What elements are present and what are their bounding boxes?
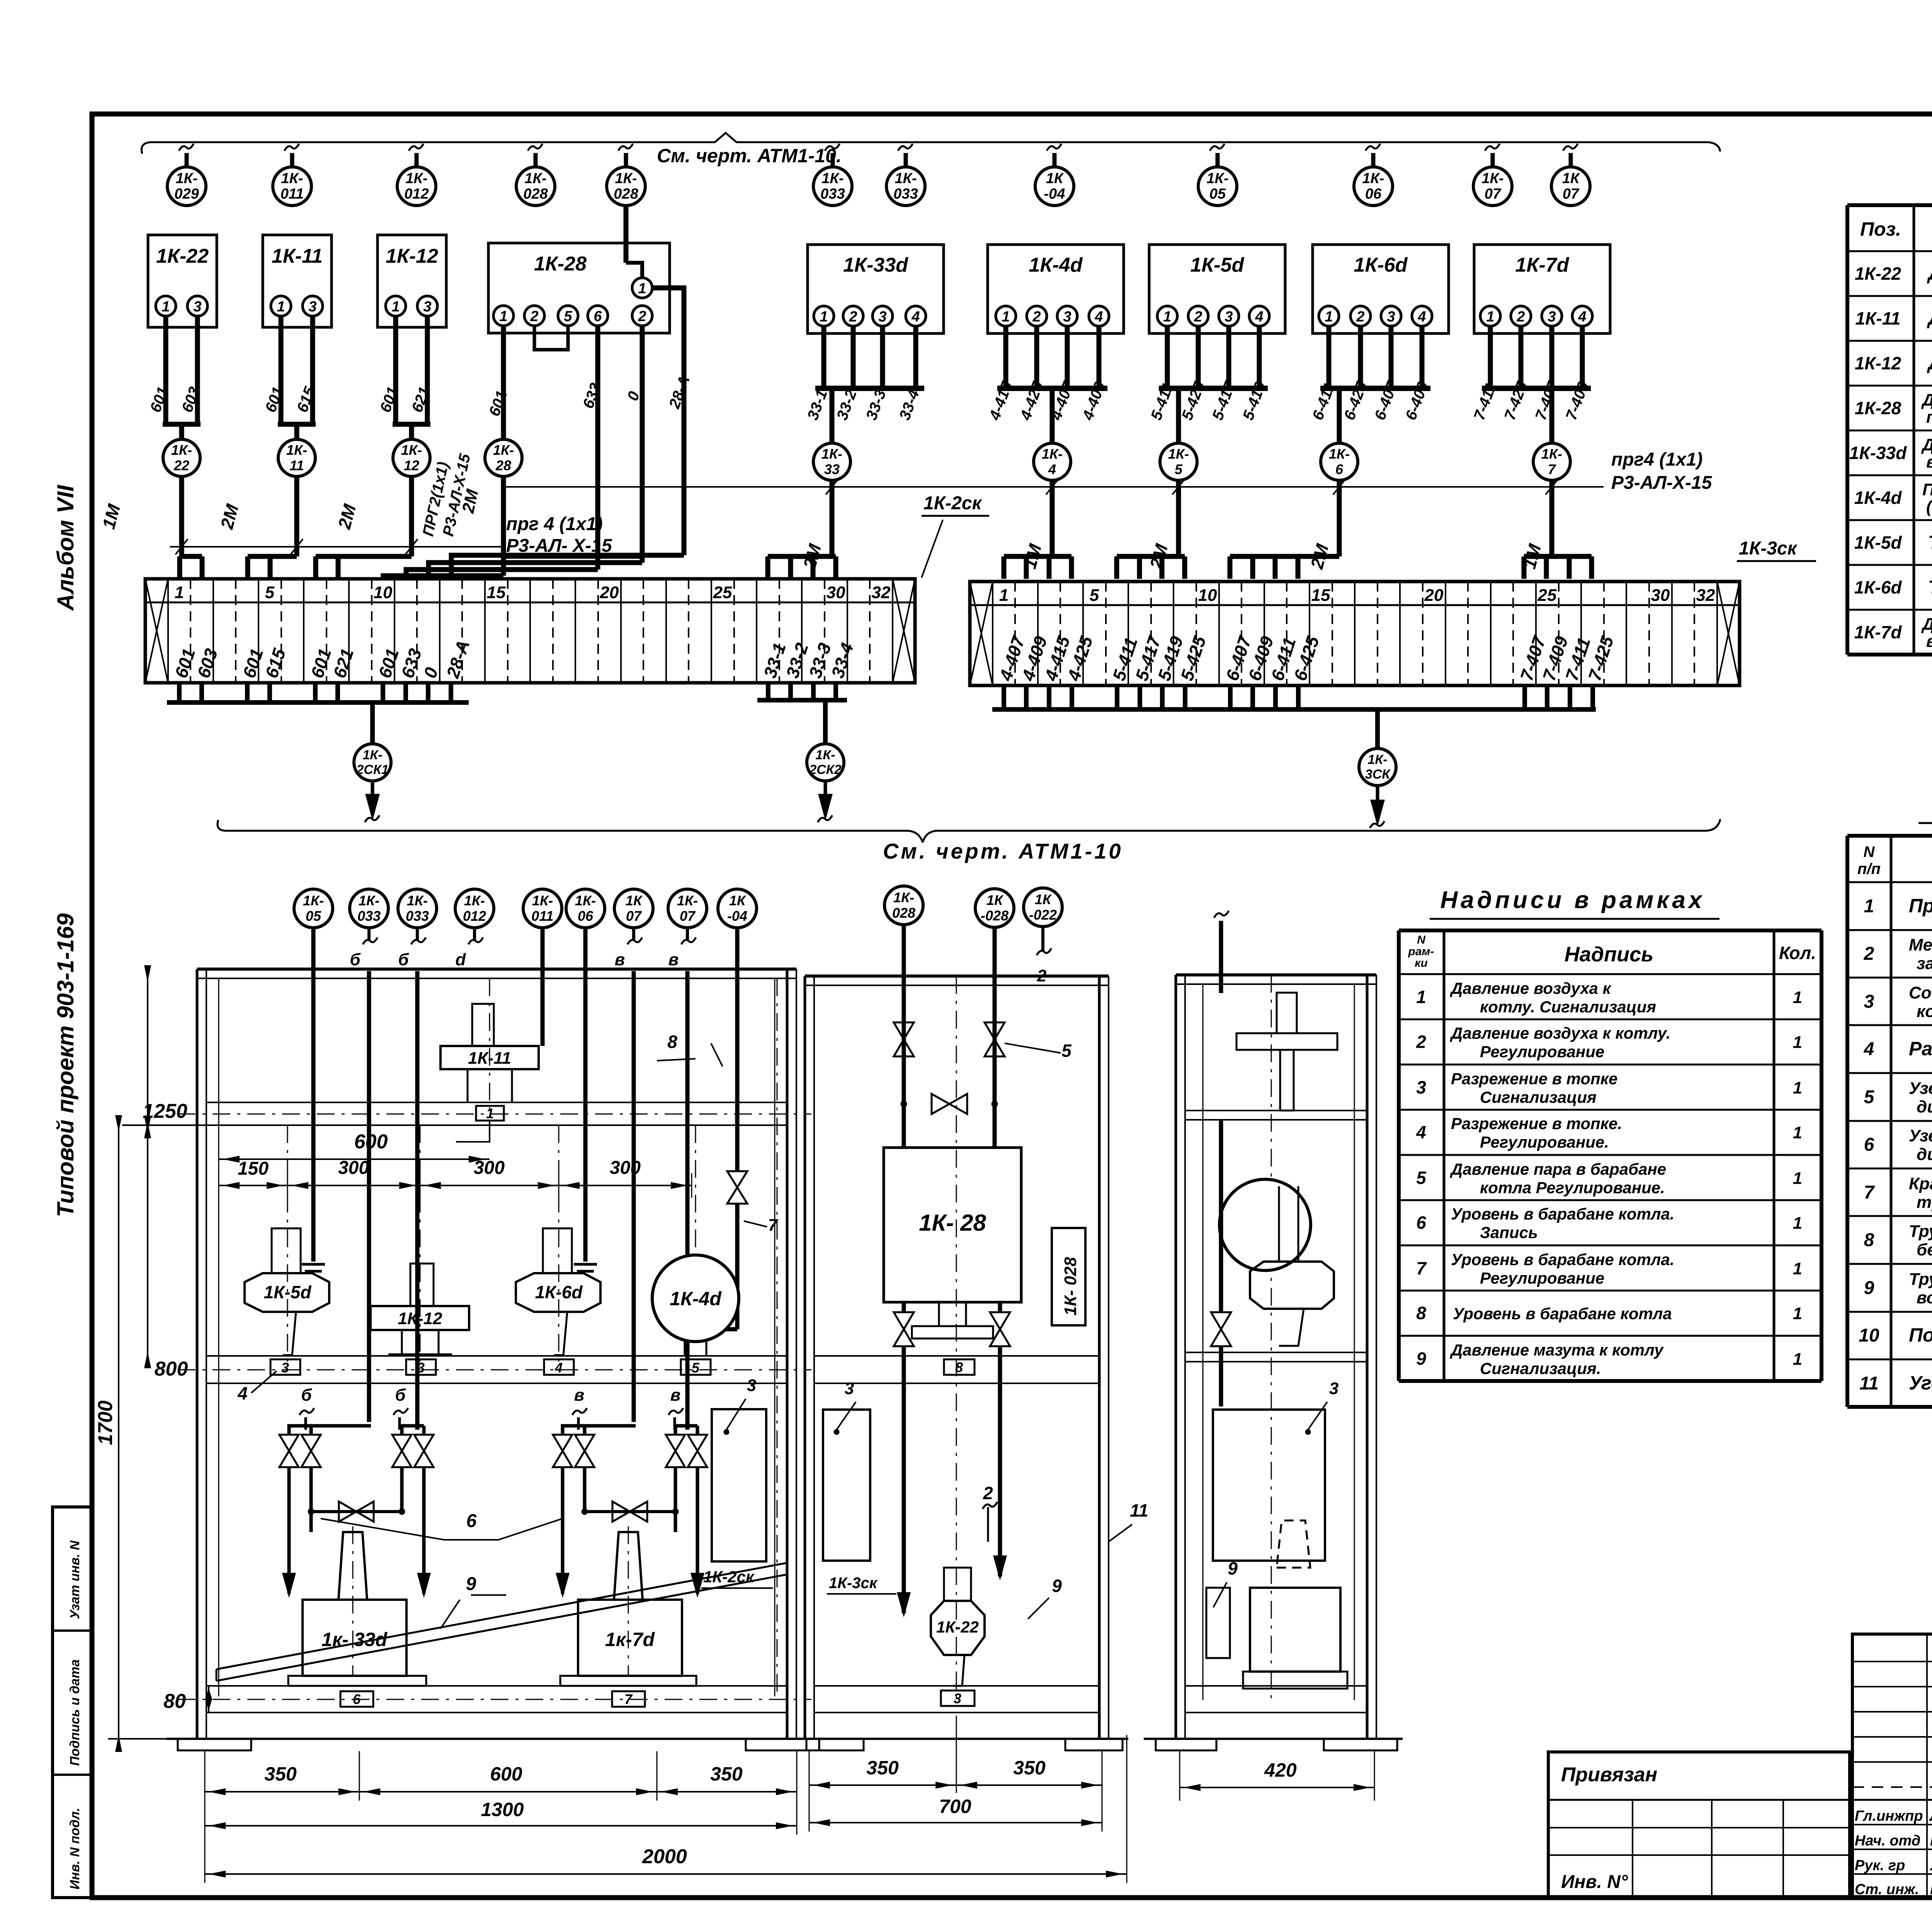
svg-text:Узел обвязки: Узел обвязки [1909,1126,1932,1145]
svg-text:4: 4 [1417,309,1426,325]
elevation A: 1К-11 device [440,1046,539,1069]
svg-text:6: 6 [1864,1134,1874,1155]
svg-text:3: 3 [1225,309,1233,325]
svg-text:б: б [350,950,361,969]
svg-text:водогазопроводная: водогазопроводная [1917,1288,1932,1307]
svg-text:1К-: 1К- [821,446,842,462]
svg-text:в: в [615,950,625,969]
junction circle 1К-6 [1321,443,1358,480]
svg-text:Разрежение в топке: Разрежение в топке [1451,1070,1617,1088]
svg-text:11: 11 [289,457,304,473]
svg-text:1К-: 1К- [1042,446,1063,462]
svg-text:6: 6 [466,1511,477,1531]
svg-text:25: 25 [713,583,732,602]
svg-text:дифманометра: дифманометра [1917,1097,1932,1116]
svg-text:8: 8 [1864,1230,1874,1250]
svg-text:33: 33 [824,461,840,477]
pipes to boxes with arrows [287,1512,291,1594]
svg-text:1К: 1К [986,892,1004,908]
svg-text:1К- 28: 1К- 28 [919,1210,986,1236]
svg-text:1: 1 [175,583,184,602]
svg-text:Гл.инжпр: Гл.инжпр [1855,1808,1923,1824]
svg-text:Дифманометр мембранный: Дифманометр мембранный [1921,435,1932,454]
svg-text:Преобразователь давления: Преобразователь давления [1922,480,1932,499]
svg-text:1К-28: 1К-28 [1855,398,1901,418]
svg-text:28: 28 [495,457,511,473]
svg-text:3: 3 [878,309,886,325]
margin stamp boxes bottom-left [53,1507,92,1898]
svg-text:-04: -04 [727,908,747,924]
svg-text:Р3-АЛ- Х-15: Р3-АЛ- Х-15 [506,536,612,556]
svg-text:Кран контрольный: Кран контрольный [1909,1174,1932,1193]
svg-text:10: 10 [1198,586,1217,605]
svg-text:4: 4 [1094,309,1103,325]
svg-text:300: 300 [474,1158,505,1178]
device box 1К-22 [148,235,217,327]
svg-text:Карамышева: Карамышева [1930,1881,1932,1898]
svg-text:1К-: 1К- [821,170,844,187]
rail1 frame tag 1 [476,1106,504,1121]
svg-text:15: 15 [1311,586,1330,605]
svg-text:2: 2 [849,309,857,325]
device box 1К-33d [808,245,944,333]
device box 1К-12 [378,235,446,327]
svg-text:6: 6 [1416,1213,1426,1233]
svg-text:1К-: 1К- [1367,752,1387,767]
svg-text:07: 07 [626,908,642,924]
wires from 1К-6d [1327,326,1332,388]
wires from 1К-4d [1003,326,1009,388]
svg-text:1К: 1К [729,893,747,908]
valve on 04 pipe [727,1171,747,1204]
svg-text:1: 1 [1793,988,1802,1007]
svg-text:9: 9 [1864,1278,1874,1298]
svg-text:1К-: 1К- [303,893,324,908]
svg-text:80: 80 [163,1690,186,1713]
svg-text:150: 150 [238,1158,269,1179]
label 6 between valve groups [321,1519,444,1540]
svg-text:350: 350 [1013,1757,1046,1779]
svg-text:1К-6d: 1К-6d [1854,577,1902,597]
svg-text:1К-7d: 1К-7d [1854,622,1902,642]
svg-text:См. черт. АТМ1-10: См. черт. АТМ1-10 [883,839,1123,863]
svg-text:4: 4 [554,1360,563,1376]
svg-text:Рамка для надписи: Рамка для надписи [1909,1038,1932,1060]
svg-text:7: 7 [1864,1182,1875,1203]
svg-text:Соединительная: Соединительная [1909,983,1932,1002]
wire elbows into terminal strip cells [248,554,297,559]
elevation C: frame [1175,975,1177,1739]
circle 1К-028 [975,889,1014,927]
svg-text:11: 11 [1130,1500,1148,1520]
rail2 frame tags [270,1359,300,1375]
svg-text:1к- 33d: 1к- 33d [321,1629,388,1650]
device box 1К-5d [1149,245,1285,333]
svg-text:028: 028 [892,905,915,921]
svg-text:20: 20 [1424,586,1444,605]
svg-text:033: 033 [357,908,381,924]
svg-text:1: 1 [1793,1123,1802,1142]
circle 1К-022 [1024,888,1062,927]
svg-text:Уровень в барабане котла: Уровень в барабане котла [1453,1304,1672,1323]
svg-text:Подставка: Подставка [1909,1324,1932,1346]
prg4 collection line (right segment) [503,486,1604,488]
svg-text:4: 4 [1578,309,1586,325]
junction circle 1К-5 [1160,443,1197,480]
svg-text:5: 5 [265,583,275,602]
circle 1К-011 [523,889,562,928]
svg-text:2СК2: 2СК2 [809,762,841,777]
elevation C: feet [1144,1738,1403,1740]
instrument circle 1К07 [1569,153,1573,167]
svg-text:п/п: п/п [1857,861,1881,878]
svg-text:4: 4 [1255,309,1263,325]
instrument circle 1К-028 [624,153,628,167]
svg-text:300: 300 [610,1158,641,1178]
svg-text:1К-: 1К- [615,170,637,187]
svg-text:котлу. Сигнализация: котлу. Сигнализация [1480,998,1656,1016]
svg-text:1К: 1К [1562,170,1580,187]
elevation B: bottom rail + tag 3 [814,1685,1099,1687]
svg-text:3: 3 [281,1360,289,1376]
svg-text:1К-22: 1К-22 [156,245,209,267]
wires from 1К-22 down to junction [163,316,168,424]
svg-text:5: 5 [692,1360,700,1376]
svg-text:Надписи в рамках: Надписи в рамках [1440,887,1705,913]
svg-text:1: 1 [499,308,507,325]
svg-text:Сигнализация.: Сигнализация. [1480,1359,1601,1378]
elevation A: rail 1 (1250 level) [206,1102,787,1103]
svg-text:7: 7 [1416,1258,1427,1278]
table: Спецификация (grid) [1845,836,1849,1407]
svg-text:1К-: 1К- [175,170,197,187]
svg-text:1: 1 [999,586,1009,605]
svg-text:5: 5 [1061,1041,1072,1061]
svg-text:012: 012 [463,908,486,924]
dimension 80 [208,1686,209,1713]
svg-text:8: 8 [955,1359,963,1375]
svg-text:30: 30 [1651,586,1670,605]
svg-text:300: 300 [338,1158,369,1178]
svg-text:2: 2 [1032,309,1041,325]
svg-text:07: 07 [1485,186,1502,202]
svg-text:1К-7d: 1К-7d [1515,254,1570,276]
svg-text:1: 1 [1793,1214,1802,1233]
svg-text:7: 7 [1548,461,1556,477]
svg-text:029: 029 [174,186,199,202]
svg-text:Разрежение в топке.: Разрежение в топке. [1451,1114,1622,1133]
svg-text:1К: 1К [1046,170,1064,187]
svg-text:2: 2 [1416,1032,1426,1052]
svg-text:Давление воздуха к котлу.: Давление воздуха к котлу. [1450,1024,1670,1042]
svg-text:1К-4d: 1К-4d [1854,488,1902,508]
svg-text:700: 700 [939,1796,971,1817]
svg-text:1К-5d: 1К-5d [1190,254,1245,276]
svg-text:1К-: 1К- [407,893,428,908]
label box 1К-028 (rotated) [1052,1228,1085,1325]
svg-text:N: N [1864,844,1875,861]
svg-text:в: в [670,1386,681,1405]
dimension 800 [147,1128,148,1356]
elevation C: rail2 [1185,1352,1367,1353]
svg-text:6: 6 [594,308,602,325]
svg-text:9: 9 [466,1574,476,1594]
svg-text:06: 06 [1365,186,1382,202]
svg-text:1К-22: 1К-22 [1855,264,1901,284]
svg-text:взаимозаменяемый: взаимозаменяемый [1926,632,1932,651]
svg-text:3: 3 [417,1360,425,1376]
svg-text:2: 2 [1356,309,1364,325]
svg-text:Узел обвязки: Узел обвязки [1909,1079,1932,1098]
elevation C: valve left [1219,1120,1223,1312]
elevation A: КСК box 1К-2ск [712,1409,766,1561]
svg-text:25: 25 [1537,586,1557,605]
svg-text:Тягомер дифференциальный: Тягомер дифференциальный [1928,532,1932,553]
svg-text:3: 3 [747,1376,756,1395]
instrument circle 1К-033 [831,153,835,167]
svg-text:1К-: 1К- [362,748,382,762]
svg-text:5: 5 [564,308,572,325]
elevation C: 4d circle side view [1219,1179,1311,1270]
svg-text:рам-: рам- [1408,945,1434,958]
circle 1К-05 [294,889,333,928]
elevation A: 1К-33d block [338,1532,367,1600]
instrument circle 1К-07 [1491,153,1495,167]
svg-text:600: 600 [490,1763,522,1785]
device box 1К-11 [263,235,332,327]
svg-text:1К-33d: 1К-33d [843,254,908,276]
crossover valve [932,1094,967,1114]
svg-text:1К-: 1К- [359,893,379,908]
svg-text:4: 4 [911,309,920,325]
svg-text:1: 1 [1416,987,1426,1007]
svg-text:1: 1 [1002,309,1010,325]
wires from 1К-33d [821,326,827,388]
device box 1К-6d [1313,245,1449,333]
svg-text:Нач. отд: Нач. отд [1855,1833,1920,1849]
svg-text:3: 3 [1548,309,1556,325]
elevation B: 1К-22 device [944,1568,971,1601]
svg-text:06: 06 [578,908,594,924]
letter tags under circles [367,928,371,940]
svg-text:1К-2ск: 1К-2ск [703,1568,755,1586]
svg-text:1: 1 [1793,1259,1802,1278]
svg-text:1К-4d: 1К-4d [670,1288,722,1310]
dimension 1250 [147,978,148,1125]
svg-text:1: 1 [820,309,828,325]
svg-text:Регулирование.: Регулирование. [1480,1133,1609,1151]
svg-text:1К-: 1К- [405,170,427,187]
svg-text:1К-: 1К- [1168,446,1189,462]
dimension C 420 [1179,1750,1180,1801]
svg-text:3: 3 [308,299,316,315]
svg-text:1К-3ск: 1К-3ск [1739,538,1798,559]
device box 1К-7d [1474,245,1610,333]
elevation A: diagonal angle braces [216,1575,786,1681]
svg-text:1: 1 [1793,1078,1802,1097]
svg-text:11: 11 [1859,1373,1879,1394]
svg-text:15: 15 [487,583,506,602]
brace line to drawing ATM1-10 (top) [141,133,1720,154]
elevation A: 1К-7d block [614,1532,643,1600]
svg-text:3: 3 [1864,992,1874,1012]
svg-text:Уровень в барабане котла.: Уровень в барабане котла. [1451,1250,1674,1269]
svg-text:1К-: 1К- [1481,170,1503,187]
wire elbows into terminal strip cells [180,554,202,559]
svg-text:1К-5d: 1К-5d [1854,532,1902,553]
svg-text:9: 9 [1416,1349,1426,1369]
svg-text:5: 5 [1416,1168,1427,1188]
junction circle 1К-12 [393,439,430,476]
circle 1К-028 [884,886,923,925]
svg-text:5: 5 [1175,461,1183,477]
svg-text:350: 350 [710,1763,743,1785]
svg-text:Кол.: Кол. [1779,943,1816,963]
svg-text:07: 07 [1563,186,1580,202]
svg-text:коробка: коробка [1917,1002,1932,1021]
svg-text:1К-: 1К- [893,889,914,905]
svg-text:1К-: 1К- [171,442,192,458]
svg-text:3: 3 [1416,1077,1426,1097]
svg-text:1К-: 1К- [281,170,303,187]
svg-text:прг 4 (1x1): прг 4 (1x1) [506,514,603,534]
svg-text:Регулирование: Регулирование [1480,1043,1604,1061]
svg-text:3: 3 [193,299,201,315]
instrument circle 1К-05 [1216,153,1220,167]
strip1 exit wires to 1К-2СК2 [766,683,770,700]
svg-text:9: 9 [1228,1558,1238,1578]
svg-text:5: 5 [1864,1087,1875,1107]
junction circle 1К-4 [1034,443,1071,480]
svg-text:1К-: 1К- [1329,446,1350,462]
svg-text:05: 05 [1209,186,1226,202]
rail3 frame tags [340,1691,373,1707]
svg-text:3: 3 [1387,309,1395,325]
svg-text:2: 2 [1037,966,1047,985]
dimension 600 [219,1158,490,1160]
svg-text:3: 3 [423,299,431,315]
elevation A: rail 2 (800 level) [206,1355,787,1357]
svg-text:Кашицын: Кашицын [1930,1832,1932,1849]
junction circle 1К-22 [163,439,200,476]
elevation A: 1К-6d device [543,1228,572,1273]
svg-text:1К-: 1К- [286,442,307,458]
elevation B: feet [796,1738,1128,1740]
elevation A: 1К-12 device [410,1264,434,1306]
elevation A: main mounting frame [196,969,199,1739]
svg-text:8: 8 [667,1032,677,1052]
svg-text:1: 1 [391,299,400,315]
svg-text:Типовой проект 903-1-169: Типовой проект 903-1-169 [53,913,78,1217]
svg-text:350: 350 [866,1757,899,1779]
svg-text:котла Регулирование.: котла Регулирование. [1480,1179,1665,1197]
svg-text:Харитонова: Харитонова [1929,1857,1932,1874]
svg-text:028: 028 [523,186,548,202]
svg-text:2: 2 [983,1483,993,1503]
svg-text:трехходовой: трехходовой [1917,1193,1932,1212]
svg-text:2000: 2000 [642,1845,687,1868]
svg-text:1: 1 [277,299,285,315]
svg-text:Провод гибкий: Провод гибкий [1909,895,1932,917]
terminal strip 1 (КСК-32 #1) [145,579,915,683]
svg-text:1К-12: 1К-12 [386,245,438,267]
svg-text:1К-: 1К- [815,748,835,762]
circle 1К-06 [566,889,605,928]
instrument circle 1К-04 [1053,153,1057,167]
svg-text:7: 7 [624,1691,633,1707]
svg-text:1К-11: 1К-11 [1855,308,1901,328]
svg-text:1: 1 [1793,1304,1802,1323]
svg-text:1К-3ск: 1К-3ск [829,1575,878,1592]
svg-text:Надпись: Надпись [1565,943,1653,966]
svg-text:-028: -028 [981,908,1009,923]
svg-text:1К: 1К [1035,891,1052,907]
svg-text:1: 1 [1325,309,1333,325]
svg-text:7: 7 [768,1216,779,1235]
svg-text:1К-4d: 1К-4d [1029,254,1083,276]
elevation B: КСК box 1К-3ск [823,1410,870,1561]
svg-text:ки: ки [1415,957,1428,969]
instrument circle 1К-011 [290,153,294,167]
svg-text:1300: 1300 [481,1799,524,1820]
bottom dimensions A [204,1751,206,1801]
svg-text:Поз.: Поз. [1860,218,1901,240]
svg-text:10: 10 [1859,1325,1879,1346]
elevation B: 1К-28 box [884,1148,1021,1302]
dimension 1700 [118,1128,119,1739]
svg-text:033: 033 [893,186,918,202]
elevation A: 1К-5d device [272,1228,301,1273]
svg-text:N: N [1417,934,1426,946]
instrument circle 1К-012 [415,153,419,167]
svg-text:1К-12: 1К-12 [1855,353,1901,373]
valve pair at 1748 [675,1426,697,1435]
svg-text:1: 1 [162,299,170,315]
svg-text:Давление пара в барабане: Давление пара в барабане [1450,1160,1666,1178]
svg-text:дифманометра: дифманометра [1917,1145,1932,1164]
svg-text:2: 2 [1194,309,1202,325]
circle 1К-033 [398,889,437,928]
valve pair at 748 [289,1426,371,1435]
svg-text:10: 10 [374,583,393,602]
svg-text:Дифференциальный манометр: Дифференциальный манометр [1921,615,1932,634]
elevation A: 1К-4d device (circle) [652,1255,739,1342]
device box 1К-28 [488,243,670,333]
svg-text:Уровень в барабане котла.: Уровень в барабане котла. [1451,1205,1674,1223]
svg-text:бесшовная: бесшовная [1917,1240,1932,1259]
svg-text:Ст. инж.: Ст. инж. [1855,1881,1919,1898]
svg-text:4: 4 [1864,1039,1874,1060]
circle 1К-04 [718,889,757,928]
svg-text:(манометр): (манометр) [1926,497,1932,516]
elevation A: signal pipes descending [311,928,316,1262]
svg-text:в: в [574,1386,585,1405]
svg-text:Труба: Труба [1909,1270,1932,1289]
elevation C: 5d hexagon side view [1250,1262,1334,1309]
svg-text:12: 12 [404,457,419,473]
svg-text:2СК1: 2СК1 [356,762,388,777]
wires from 1К-5d [1165,326,1170,388]
svg-text:32: 32 [1696,586,1715,605]
svg-text:Привязан: Привязан [1561,1764,1657,1786]
circle 1К-033 [350,889,388,928]
svg-text:1К-: 1К- [1541,446,1562,462]
svg-text:1: 1 [1864,896,1874,917]
crossover pipes with horizontal valves [311,1510,402,1513]
svg-text:028: 028 [614,186,638,202]
circle 1К07 [614,889,653,928]
svg-text:1: 1 [638,281,646,297]
